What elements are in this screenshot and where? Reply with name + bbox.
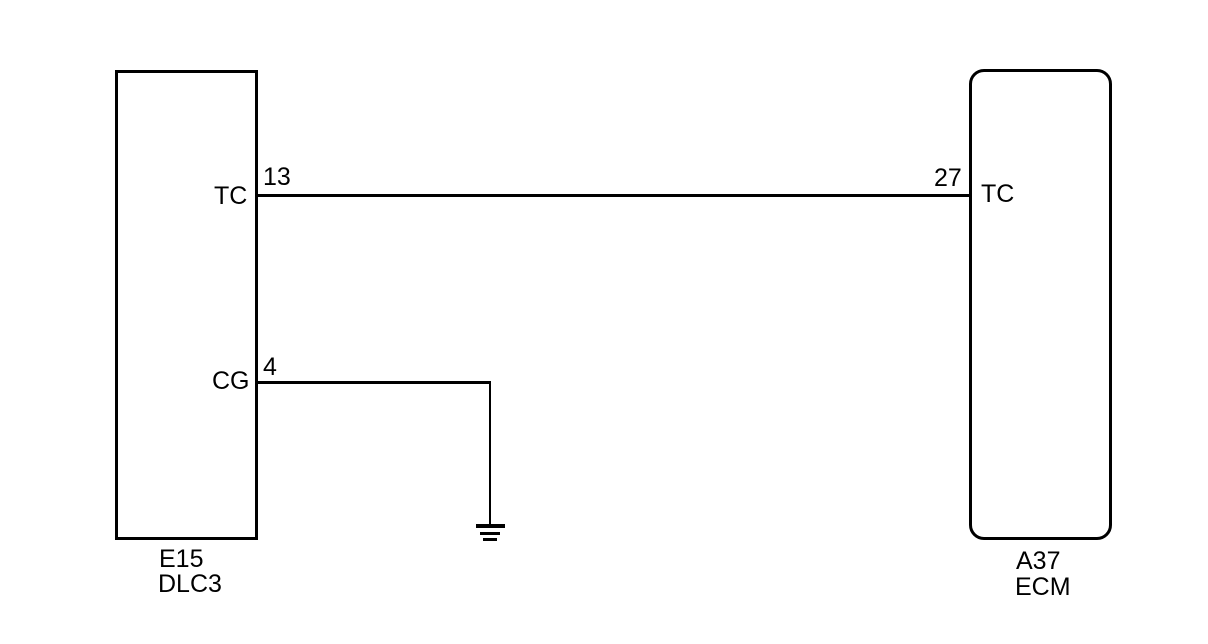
pin label TC (E15 side): [214, 184, 247, 209]
pin number 27: [934, 166, 962, 191]
connector E15 DLC3 (left box): [115, 70, 258, 540]
pin label CG (E15 side): [212, 369, 250, 394]
label ECM: [1015, 575, 1071, 600]
ground: [476, 524, 505, 528]
label E15: [159, 547, 203, 572]
pin number 4: [263, 355, 277, 380]
pin number 13: [263, 165, 291, 190]
label A37: [1016, 549, 1060, 574]
connector A37 ECM (right rounded box): [969, 69, 1112, 540]
pin label TC (ECM side): [981, 182, 1014, 207]
label DLC3: [158, 572, 222, 597]
wire CG horizontal: E15 pin 4 to ground drop: [258, 381, 491, 384]
wire TC: E15 pin 13 to ECM pin 27: [258, 194, 969, 197]
wire CG vertical: down to ground: [489, 381, 492, 524]
